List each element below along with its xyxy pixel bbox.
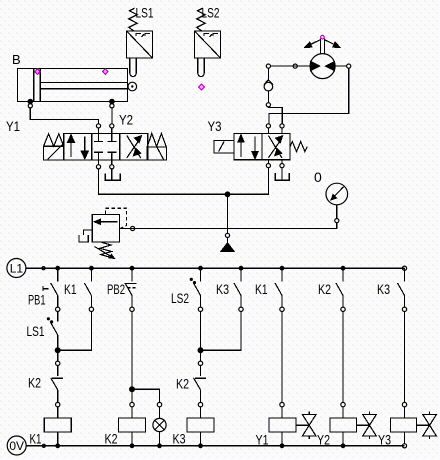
svg-text:K2: K2 [28, 375, 41, 391]
junction lamp branch [130, 387, 135, 392]
coil Y1 [269, 407, 296, 446]
valve symbol Y3 [417, 412, 437, 440]
coil Y2 [330, 407, 357, 446]
cylinder port node B (right) [110, 99, 114, 108]
svg-text:Y2: Y2 [317, 432, 330, 448]
coil K1 [44, 407, 71, 446]
coil node circles [56, 402, 407, 406]
coil K3 [187, 407, 214, 446]
coil Y3 [391, 407, 417, 444]
marker diamond on cylinder (left) [35, 69, 40, 75]
svg-text:K1: K1 [30, 431, 42, 447]
wire cylinder port B to valve V1 port [111, 108, 113, 124]
rail junction dots [55, 443, 345, 448]
svg-text:K2: K2 [105, 431, 118, 447]
relief valve RV1 body [92, 214, 119, 242]
junction P line [225, 192, 230, 197]
pump rotation arrow right [325, 40, 340, 47]
wire gauge to P line [120, 205, 339, 231]
pressure gauge G1 [326, 183, 348, 205]
wire P junction down to tank [225, 194, 229, 243]
relief valve tank (left) [79, 230, 92, 242]
svg-text:K2: K2 [176, 376, 189, 392]
contact LS2 [190, 268, 202, 311]
svg-text:0V: 0V [9, 439, 24, 453]
pump shaft [320, 39, 324, 54]
rail node circle [42, 267, 45, 270]
valve V1 bottom port nodes [96, 160, 114, 169]
wire K3 contact to junction [203, 312, 241, 351]
svg-text:B: B [12, 52, 21, 67]
valve V1 left position arrows [68, 135, 89, 159]
lamp PL1 [153, 407, 166, 446]
junction LS2/K3 [198, 348, 203, 353]
svg-text:Y1: Y1 [6, 118, 20, 134]
solenoid Y3 (left end of valve V2) [214, 140, 234, 153]
wire PB2 down [131, 312, 133, 388]
wires K contacts down to coils [282, 312, 405, 403]
svg-text:LS1: LS1 [27, 323, 45, 339]
svg-text:K3: K3 [377, 281, 390, 297]
relief valve adjust arrow [95, 247, 115, 259]
contact PB1 [43, 268, 60, 311]
solenoid Y2 (right end of valve V1) [147, 133, 167, 160]
svg-text:0: 0 [314, 169, 322, 185]
contact K2 (for Y2) [336, 268, 345, 311]
svg-text:Y3: Y3 [378, 432, 391, 448]
rail end node [402, 444, 406, 448]
rail junction dots [55, 266, 345, 271]
svg-text:PB1: PB1 [28, 292, 46, 308]
wire pump left port [266, 64, 310, 80]
contact K1 (for Y1) [275, 268, 284, 311]
cylinder port node A (left) [28, 99, 32, 108]
rail 0V [26, 445, 404, 447]
node below junction [198, 353, 202, 366]
svg-text:K2: K2 [318, 281, 331, 297]
marker diamond below LS2 [199, 84, 205, 90]
spring (right end of valve V2) [290, 142, 307, 152]
contact K1 (seal-in) [84, 268, 93, 311]
valve V2 right position crossed arrows [268, 136, 282, 159]
svg-text:LS1: LS1 [136, 5, 154, 21]
svg-text:Y1: Y1 [256, 432, 269, 448]
valve V2 body (4/2 directional valve) [234, 134, 290, 160]
node 0V [7, 436, 26, 455]
check valve CV1 [264, 80, 273, 107]
solenoid Y1 (left end of valve V1) [44, 134, 64, 160]
rail end node [402, 266, 406, 270]
tank triangle [221, 243, 234, 252]
limit switch LS1 [127, 8, 153, 76]
marker diamond on cylinder (right) [103, 69, 108, 75]
svg-text:LS2: LS2 [171, 290, 189, 306]
valve V1 right position crossed arrows [127, 136, 142, 159]
valve symbol Y1 [296, 412, 316, 440]
wire K1 contact to junction [60, 312, 91, 351]
valve V2 left position arrows [238, 135, 258, 159]
svg-text:LS2: LS2 [202, 5, 220, 21]
relief valve spring [100, 242, 112, 257]
valve V2 bottom port nodes [266, 160, 284, 168]
wire check valve to valve V2 right top port [268, 107, 282, 124]
svg-text:L1: L1 [10, 261, 24, 275]
svg-text:Y2: Y2 [119, 112, 133, 128]
limit switch LS2 [195, 8, 221, 76]
cylinder B body [18, 69, 129, 102]
node L1 [7, 259, 26, 278]
valve V2 top port nodes [266, 124, 284, 134]
svg-text:Y3: Y3 [208, 118, 222, 134]
rail node circle [42, 444, 45, 447]
rail L1 [26, 267, 405, 269]
valve symbol Y2 [357, 412, 377, 440]
pump rotation arrow left [305, 40, 320, 47]
svg-text:K3: K3 [216, 281, 229, 297]
junction rung1 [55, 348, 60, 353]
contact K3 (seal-in) [234, 268, 243, 311]
contact LS1 [47, 312, 57, 349]
contact K2 (NC, rung3) [194, 366, 206, 403]
node below junction [56, 353, 60, 366]
tank under valve V2 [275, 168, 289, 180]
svg-text:PB2: PB2 [107, 281, 125, 297]
pump P1 [310, 54, 335, 79]
valve V1 top port nodes [96, 124, 114, 134]
valve V1 centre position blocked ports [94, 134, 116, 161]
valve V1 body (4/3 directional valve) [64, 134, 148, 161]
svg-text:K3: K3 [173, 431, 186, 447]
contact PB2 (NC) [125, 268, 137, 311]
tank under valve V1 [105, 169, 120, 180]
pump shaft marker dot [321, 35, 325, 39]
wire PB2 junction to coil [131, 392, 133, 403]
wire to lamp [134, 389, 160, 402]
coil K2 [119, 407, 146, 446]
contact K3 (for Y3) [398, 268, 407, 311]
wire LS2 contact down [200, 312, 202, 349]
wire cylinder port A to valve V1 port [30, 108, 98, 124]
svg-text:K1: K1 [255, 281, 268, 297]
contact K2 (NC, rung1) [51, 366, 63, 403]
cylinder rod end roller [128, 82, 137, 91]
wire P line from valve V1 to valve Y3 [99, 168, 269, 195]
svg-text:K1: K1 [64, 281, 77, 297]
wire pump right port down to valve V2 left top port [269, 64, 351, 124]
relief valve pilot line (dashed) [106, 208, 127, 228]
